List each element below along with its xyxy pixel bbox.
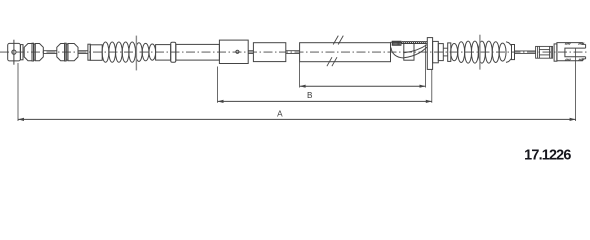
cable rod segment — [78, 51, 88, 54]
clevis fork end — [557, 43, 586, 61]
cable rod segment — [286, 51, 300, 54]
wire centerline (cable axis) — [0, 51, 588, 53]
svg-text:17.1226: 17.1226 — [524, 147, 571, 163]
dimension B extension lines — [218, 67, 432, 103]
dimension C extension lines (sheath length) — [300, 45, 426, 88]
grommet bushing 2 flange — [65, 43, 68, 61]
bellows boot 1 (8 convolutions) — [102, 42, 155, 62]
dimension A extension lines — [18, 48, 576, 121]
svg-text:A: A — [277, 110, 283, 119]
panel grommet line (gray) through bellows 2 — [479, 35, 481, 70]
stop disc — [88, 44, 90, 60]
left cable end fitting (eyelet block) — [8, 40, 21, 65]
cable rod segment — [515, 51, 536, 54]
sheath tube — [90, 45, 102, 61]
clevis collar bar — [554, 44, 557, 61]
adjuster sleeve — [536, 46, 553, 58]
stop disc — [448, 43, 451, 62]
svg-text:B: B — [307, 91, 313, 100]
collar — [171, 42, 176, 62]
dimension C line — [300, 85, 426, 88]
sheath sleeve — [253, 43, 285, 62]
end cone — [506, 42, 512, 63]
sheath tube — [156, 45, 171, 61]
grommet bushing 1 flange — [32, 43, 35, 61]
dimension A line — [18, 118, 576, 121]
adjuster guide body — [391, 42, 428, 60]
cable rod segment — [43, 51, 57, 54]
panel grommet line (gray) through bellows 1 — [135, 36, 137, 71]
ferrule step 1 — [433, 41, 439, 62]
grommet bushing 2 right bell — [68, 44, 78, 61]
bellows boot 2 (8 convolutions) — [451, 41, 506, 63]
mounting bracket plate — [427, 38, 432, 70]
washer disc — [21, 45, 24, 60]
neck — [443, 48, 447, 56]
grommet bushing 1 right bell — [35, 44, 43, 61]
stop disc — [512, 45, 515, 60]
ferrule step 2 — [438, 44, 443, 61]
grommet bushing 1 left bell — [24, 44, 32, 61]
grommet bushing 2 left bell — [57, 44, 65, 61]
break marks on tube — [327, 36, 343, 67]
cable rod segment — [248, 51, 253, 54]
outer sheath tube — [176, 44, 220, 60]
clamp block with hole — [219, 40, 248, 63]
dimension B line — [218, 100, 432, 103]
serrated adjuster rack strip (spring coil + striped clamp) — [392, 41, 427, 45]
long outer sheath tube — [300, 43, 391, 62]
